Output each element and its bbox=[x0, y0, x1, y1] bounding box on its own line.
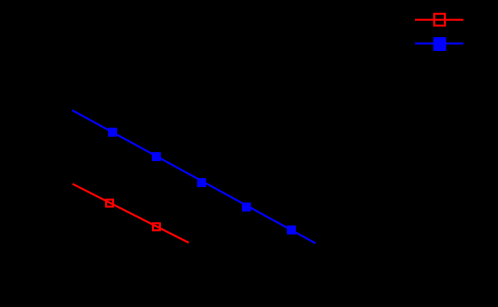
red marker 2 bbox=[153, 223, 160, 230]
blue marker 2 bbox=[152, 152, 161, 161]
red series line bbox=[73, 184, 189, 243]
red marker 1 bbox=[106, 200, 113, 207]
blue marker 5 bbox=[287, 226, 296, 235]
legend blue filled square marker bbox=[433, 37, 446, 51]
legend blue sample line bbox=[415, 43, 463, 45]
legend red sample line bbox=[415, 19, 463, 21]
blue marker 3 bbox=[197, 178, 206, 187]
blue series line bbox=[72, 110, 315, 243]
blue marker 1 bbox=[108, 128, 117, 137]
legend red open square marker bbox=[434, 14, 445, 26]
blue marker 4 bbox=[242, 203, 251, 212]
